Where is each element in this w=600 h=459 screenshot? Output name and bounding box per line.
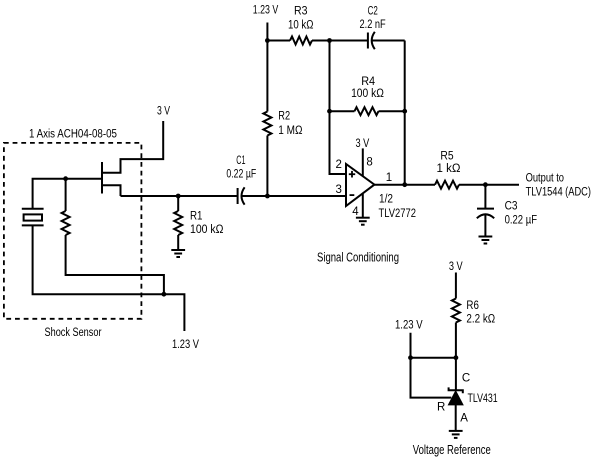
svg-text:100 kΩ: 100 kΩ	[351, 88, 384, 100]
svg-text:0.22 µF: 0.22 µF	[226, 169, 256, 181]
svg-text:10 kΩ: 10 kΩ	[288, 20, 314, 32]
svg-text:A: A	[460, 413, 468, 425]
svg-text:R2: R2	[278, 111, 290, 123]
svg-text:4: 4	[352, 206, 359, 218]
svg-text:R4: R4	[361, 76, 375, 88]
svg-text:3 V: 3 V	[449, 261, 463, 273]
svg-text:2.2 kΩ: 2.2 kΩ	[466, 314, 495, 326]
svg-text:C1: C1	[236, 155, 245, 167]
svg-text:0.22 µF: 0.22 µF	[505, 215, 537, 227]
svg-text:C: C	[462, 373, 470, 385]
svg-text:R5: R5	[440, 150, 453, 162]
svg-text:1: 1	[386, 172, 392, 184]
svg-text:TLV2772: TLV2772	[379, 208, 417, 220]
svg-text:Signal Conditioning: Signal Conditioning	[317, 251, 399, 265]
svg-text:Output to: Output to	[526, 173, 564, 185]
svg-text:100 kΩ: 100 kΩ	[190, 224, 224, 236]
svg-text:1 MΩ: 1 MΩ	[278, 125, 303, 137]
svg-text:1.23 V: 1.23 V	[253, 5, 279, 17]
svg-text:3 V: 3 V	[356, 138, 370, 150]
svg-text:TLV1544 (ADC): TLV1544 (ADC)	[526, 186, 592, 198]
svg-text:1 kΩ: 1 kΩ	[437, 163, 461, 175]
svg-text:R1: R1	[190, 211, 203, 223]
svg-text:R: R	[437, 402, 445, 414]
svg-text:TLV431: TLV431	[468, 393, 498, 405]
svg-text:1 Axis ACH04-08-05: 1 Axis ACH04-08-05	[29, 129, 117, 141]
svg-text:2.2 nF: 2.2 nF	[360, 19, 386, 31]
svg-text:2: 2	[336, 159, 342, 171]
svg-text:C2: C2	[368, 6, 378, 18]
svg-text:Shock Sensor: Shock Sensor	[45, 327, 102, 339]
svg-text:3 V: 3 V	[157, 105, 170, 117]
svg-text:Voltage Reference: Voltage Reference	[413, 443, 491, 457]
svg-text:C3: C3	[505, 201, 518, 213]
svg-text:R3: R3	[294, 5, 308, 17]
svg-text:R6: R6	[466, 300, 479, 312]
svg-text:3: 3	[336, 184, 342, 196]
svg-text:1.23 V: 1.23 V	[395, 320, 423, 332]
svg-text:1.23 V: 1.23 V	[172, 339, 199, 351]
svg-text:1/2: 1/2	[379, 194, 393, 206]
svg-text:8: 8	[366, 156, 372, 168]
